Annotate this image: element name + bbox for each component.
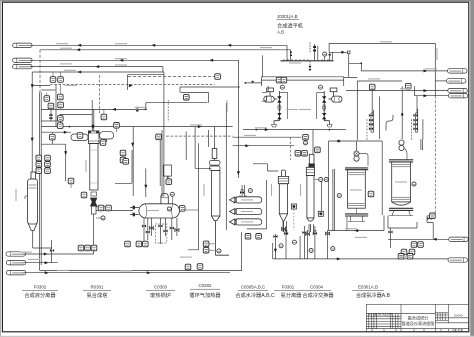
wire: lines into C0304 area y137 y145.7	[233, 137, 302, 146]
wire: dashed control box at boiler	[155, 224, 166, 243]
instrument TI-40	[256, 234, 262, 240]
arrow: bottom flag1 line	[44, 253, 48, 256]
label R0301 converter	[83, 284, 111, 299]
instrument LI-27	[68, 178, 74, 184]
valve boiler blowdown 4	[170, 227, 174, 230]
title block	[366, 304, 469, 331]
svg-text:合成冷交换器: 合成冷交换器	[302, 291, 334, 299]
arrow: header y126.6	[198, 125, 202, 128]
svg-text:氨合成塔分: 氨合成塔分	[408, 315, 428, 321]
instrument row LI-29 LI-30 LI-31	[125, 241, 131, 247]
flag right 6	[448, 258, 468, 262]
boiler dome gauge	[170, 192, 174, 196]
instrument SI-49 SI-50	[276, 77, 282, 83]
wire: dashed capillary x290.3	[289, 137, 291, 160]
wire: line y109.4	[41, 103, 146, 110]
flag right 5	[449, 237, 469, 241]
bubble standpipe	[166, 179, 172, 185]
arrow: header dot	[69, 126, 71, 128]
svg-text:C0302: C0302	[199, 283, 212, 288]
converter inlet pot left	[71, 134, 88, 141]
instrument PI-2	[58, 94, 64, 100]
wire: bubble stems upper-left	[47, 72, 182, 208]
instrument HC-42	[405, 83, 411, 89]
flange marks on converter bypass	[136, 107, 138, 109]
C0304 top instruments circles	[319, 177, 323, 181]
valve E0301A drain	[326, 232, 330, 235]
instrument PI-38	[315, 147, 321, 153]
instrument TI-21	[215, 74, 221, 80]
wire: letdown dashed bypasses	[367, 119, 412, 140]
wire: F0302 feed line y72	[32, 71, 164, 73]
arrow: x32.2 down	[31, 138, 34, 142]
instrument FI-13	[57, 123, 63, 129]
arrow: main under turbine	[265, 128, 269, 131]
flag right 2	[447, 79, 467, 83]
svg-text:氨分离器: 氨分离器	[281, 291, 303, 299]
instrument row FI-24 FI-25 FI-26	[78, 245, 84, 251]
svg-text:氨合成塔: 氨合成塔	[87, 291, 109, 299]
instrument LI-43 LI-44	[411, 242, 417, 248]
instrument row TI-15a TI-15b	[36, 162, 42, 168]
boiler C0303 waste heat boiler drum	[130, 165, 199, 218]
turbine J0301A assembly	[264, 88, 288, 127]
wire: right drain riser x427	[427, 216, 433, 240]
boiler inner label	[147, 210, 159, 211]
wire: F0302 inlet riser x32.2	[31, 72, 33, 172]
instrument LI-22	[98, 205, 104, 211]
arrow: feed1	[77, 44, 81, 47]
wire: bottom valve cluster verticals	[275, 226, 327, 259]
wire: instrument line y144.2	[41, 140, 65, 181]
chiller E0301A ammonia cooler A	[345, 151, 368, 231]
wire: E0301 bottom header y230.6	[329, 216, 384, 231]
arrow: into inlet pot	[64, 131, 68, 134]
heater C0302 circulating gas heater column	[210, 149, 230, 256]
valve boiler blowdown 6	[146, 231, 150, 234]
label C0305A,B,C	[235, 284, 275, 299]
wire: turbine box side x262.6	[262, 55, 264, 77]
valve boiler blowdown 3	[158, 225, 162, 228]
svg-text:J0301(A,B: J0301(A,B	[277, 14, 298, 19]
gauge PI drain 1	[279, 244, 283, 248]
wire: C0302 inlet elbow	[195, 127, 211, 169]
valve product line	[273, 235, 277, 238]
instrument TI-47 TI-48	[398, 253, 404, 259]
label C0302	[189, 283, 221, 299]
arrow: x145.8 down	[144, 185, 147, 189]
wire: header y126.6 left area	[41, 126, 233, 128]
exchanger C0304 cold exchanger column	[306, 154, 314, 232]
wire: feed line 1 y45	[30, 45, 287, 60]
label C0303	[146, 284, 175, 299]
wire: E0301B feed risers	[380, 96, 423, 150]
bottom left small valves	[50, 249, 54, 252]
cooler C0305C	[230, 219, 262, 225]
instrument TI-8	[101, 114, 107, 120]
svg-text:E0301A,B: E0301A,B	[358, 284, 378, 289]
gauge PI drain 2	[292, 240, 296, 244]
gauge PI drain 3	[309, 248, 313, 252]
C0304 level instrument	[318, 211, 323, 216]
valve boiler blowdown 1	[142, 225, 146, 228]
instrument FI-20	[156, 134, 162, 140]
page edge shading bottom	[0, 336, 474, 337]
svg-text:F0302: F0302	[34, 284, 47, 289]
instrument PI-7	[58, 116, 64, 122]
title block texts	[368, 313, 464, 333]
wire: R4 feed	[415, 86, 449, 96]
wire: C0305 inlet drop x238.4	[238, 127, 240, 178]
wire: converter inlet line y132.2	[41, 131, 71, 133]
E0301B inner label	[395, 181, 407, 182]
label F0301	[274, 284, 302, 299]
bubble box left	[123, 159, 129, 165]
instrument LI-10	[50, 134, 56, 140]
svg-text:合成液分离器: 合成液分离器	[24, 291, 56, 299]
flag right 3	[448, 88, 468, 92]
svg-text:R0301: R0301	[91, 284, 104, 289]
converter outlet pot right	[100, 132, 114, 142]
page edge shading left	[0, 0, 2, 337]
arrow: drain drop	[274, 249, 277, 253]
wire: step to x226	[225, 103, 227, 230]
wire: R1 feed	[349, 63, 448, 71]
svg-text:合成透平机: 合成透平机	[277, 21, 304, 29]
C0305 top valves	[240, 190, 244, 194]
wire: inner box edge x133.2	[132, 127, 134, 196]
instrument PI-18	[120, 157, 126, 163]
converter R0301 ammonia synthesis tower	[89, 131, 100, 214]
wire: turbine box top	[261, 77, 343, 86]
chiller E0301B ammonia cooler B	[389, 140, 413, 216]
wire: R2 feed	[435, 80, 446, 82]
wire: flag feed bottom2 y262.7	[23, 240, 57, 263]
instrument TI-1	[44, 96, 50, 102]
arrow: product line	[337, 257, 341, 260]
control valve F0301 drain	[284, 231, 288, 235]
flag left feed 3	[13, 64, 32, 68]
label E0301A,B	[352, 284, 391, 299]
instrument LI-45 LI-46	[401, 249, 407, 255]
wire: dashed vertical x435 lower	[434, 96, 436, 216]
wire: dashed signal y84.4	[50, 83, 215, 85]
instrument PI-11	[77, 133, 83, 139]
C0304 side label	[300, 184, 301, 196]
instrument row TI-14a TI-14b	[36, 155, 42, 161]
flag left bottom 3	[6, 271, 26, 275]
valve boiler blowdown 7	[175, 229, 179, 232]
wire: recycle line y49.8	[40, 50, 291, 61]
instrument TI-12	[100, 140, 106, 146]
page edge shading right	[470, 0, 474, 337]
wire: dashed instrument line y76.5	[128, 76, 215, 78]
E0301A inner label	[350, 189, 362, 190]
wire: left line y85.4 short	[32, 84, 50, 86]
wire: F0301 feed step	[253, 164, 278, 171]
instrument PI-19	[184, 94, 190, 100]
svg-text:合成水冷器A,B,C: 合成水冷器A,B,C	[235, 291, 275, 299]
wire: verticals x198.5 x208.6	[188, 130, 209, 250]
wire: box corner x127.5	[128, 75, 164, 90]
top title: turbine J0301	[277, 14, 304, 35]
E0301A side bubble	[368, 191, 374, 197]
svg-text:合成氨冷器A,B: 合成氨冷器A,B	[356, 291, 391, 299]
boiler shell gauge	[167, 207, 171, 211]
instrument HC-41	[369, 84, 375, 90]
instrument PI-34	[303, 134, 309, 140]
wire: right flag5 line y239.3	[388, 238, 449, 240]
wire: left main vertical x56	[55, 84, 57, 126]
arrow: feed3	[95, 65, 99, 68]
wire: stub x51	[50, 110, 52, 122]
wire: converter feed x93.5 top	[92, 100, 94, 131]
arrow: R3 line	[424, 89, 428, 92]
wire: short line y121	[41, 120, 59, 122]
instrument TI-37	[302, 150, 308, 156]
wire: compressor stack feeds	[372, 90, 417, 113]
instrument TI-9	[114, 123, 120, 129]
instrument TI-51 TI-52	[203, 241, 209, 247]
wire: feed line 3 y66.6	[30, 67, 163, 72]
cooler C0305B	[230, 208, 262, 214]
arrow: converter feed down	[92, 125, 95, 129]
wire: drum inlet from converter	[96, 207, 133, 211]
arrow: y85.6 line	[129, 84, 133, 87]
instrument AI-33	[197, 264, 203, 270]
control valve C0304 drain	[313, 231, 317, 235]
arrow: y109.4 left	[112, 108, 116, 111]
arrow: feed2	[76, 48, 80, 51]
compressor valve stacks right	[369, 114, 373, 117]
arrow: boiler drop	[131, 143, 134, 147]
wire: battery limit dashed vertical x40 top	[39, 50, 41, 93]
F0301 side label	[271, 184, 272, 196]
label F0302	[22, 284, 58, 299]
wire: line y87 mid with drop	[180, 87, 240, 93]
bubble drum side	[179, 206, 185, 212]
wire: plant box left edge double	[40, 92, 42, 270]
svg-text:管道及仪表流程图: 管道及仪表流程图	[402, 320, 435, 326]
wire: converter tail x93.5	[93, 214, 95, 254]
wire: big box bottom edge y270.6	[40, 232, 242, 271]
instrument PI-17	[120, 150, 126, 156]
arrow: bottom flag3 line	[45, 271, 49, 274]
svg-text:C0305A,B,C: C0305A,B,C	[241, 284, 265, 289]
flag left bottom 1	[6, 252, 26, 256]
wire: bottom product line y259	[273, 258, 449, 260]
wire: line y92.6 mid	[181, 93, 209, 103]
svg-text:C0303: C0303	[154, 284, 167, 289]
J0301B valve stack	[322, 96, 326, 102]
wire: compressor box top y81	[357, 81, 402, 140]
wire: boiler feed drop x145.8	[146, 103, 208, 197]
instrument LI-28	[81, 192, 87, 198]
valve boiler blowdown 2	[150, 227, 154, 230]
arrow: bottom flag2 line	[45, 261, 49, 264]
svg-text:废热锅炉: 废热锅炉	[150, 291, 171, 299]
wire: C0302 riser x215.5	[214, 127, 216, 149]
wire: C0304 riser x313	[312, 130, 314, 155]
instrument FI-3	[50, 77, 56, 83]
wire: F0301 C0304 bottom drops	[283, 221, 314, 235]
turbine J0301B assembly	[317, 88, 342, 127]
wire: steam header risers	[315, 44, 358, 78]
F0301 level instrument	[291, 204, 296, 209]
converter letdown gauge	[101, 216, 105, 220]
wire: R3 feed	[346, 90, 448, 92]
E0301A side gauge	[337, 194, 341, 198]
vessel F0302 synthesis liquid separator	[25, 172, 37, 231]
svg-text:A,B: A,B	[277, 30, 284, 35]
instrument TI-36	[295, 150, 301, 156]
svg-text:F0301: F0301	[282, 284, 295, 289]
wire: boiler drops	[144, 218, 177, 244]
arrow: y145.7	[245, 144, 249, 147]
F0302 side label	[15, 189, 16, 201]
flange pair feed line	[49, 114, 52, 116]
arrow: R1 line	[424, 69, 428, 72]
arrow: x226.3 down	[237, 171, 240, 175]
arrow: R4 line	[424, 94, 428, 97]
equipment name labels (bottom row)	[22, 283, 391, 299]
valve C0304 drain 1	[302, 231, 306, 234]
wire: flag feed bottom1 y254	[23, 253, 94, 255]
wire: vertical x163.9	[163, 72, 165, 197]
wire: dashed vertical x99.5	[99, 75, 101, 114]
wire: letdown hook	[386, 115, 393, 131]
flag left bottom 2	[6, 261, 26, 265]
arrow: steam crossover	[341, 51, 345, 54]
arrow: x65.7 down	[64, 151, 67, 155]
instrument FI-4	[58, 77, 64, 83]
wire: valve stack risers right	[371, 109, 418, 132]
converter side label	[85, 160, 86, 172]
wire: bottom left vertical x272.7	[272, 243, 274, 259]
arrow: flag5 line	[433, 238, 437, 241]
instrument TI-5	[48, 103, 54, 109]
wire: short line y114.4	[60, 113, 93, 115]
wire: steam line top right y43.4	[329, 43, 435, 96]
separator F0301 ammonia separator column	[278, 170, 288, 232]
J0301A valve stack	[277, 96, 281, 102]
svg-text:XXXXXX: XXXXXX	[454, 315, 464, 317]
wire: line x186	[185, 132, 187, 161]
E0301B side gauge	[412, 182, 416, 186]
wire: main line under turbines y129.6	[243, 129, 346, 131]
wire: F0302 tail	[33, 231, 52, 248]
label C0304	[302, 284, 334, 299]
flag left feed 1	[13, 43, 32, 47]
instrument AI-32	[185, 264, 191, 270]
arrow: F0302 feed	[77, 71, 81, 74]
page edge shading top	[0, 0, 474, 1]
wire: E0301A inlet loop	[329, 141, 383, 231]
C0302 side label	[203, 184, 204, 196]
gauge PI drain 4	[331, 247, 335, 251]
wire: dashed stub x168.2	[167, 100, 169, 122]
gauge PG-35	[303, 141, 307, 145]
valve boiler blowdown 5	[163, 230, 167, 233]
wire: turbine A inlet elbows	[245, 83, 268, 101]
wire: boiler downcomer pair	[160, 130, 162, 197]
flag right 4	[448, 94, 468, 98]
instrument row TI-16a TI-16b	[36, 168, 42, 174]
svg-text:循环气加热器: 循环气加热器	[189, 291, 221, 299]
instrument LI-23	[106, 205, 112, 211]
wire: bubble enclosure x132	[115, 150, 132, 183]
flag right 1	[448, 69, 468, 73]
instrument PI-6	[58, 102, 64, 108]
wire: C0304 instrument drop	[321, 180, 323, 212]
bottom right drain valves	[388, 231, 392, 234]
flag left feed 2	[13, 58, 32, 62]
wire: bottom pipe from flag3 y272.7	[23, 272, 230, 274]
svg-text:C0304: C0304	[310, 284, 323, 289]
wire: E0301B drain	[388, 216, 417, 249]
arrow: bottom header	[354, 229, 358, 232]
wire: dashed signal y136.1	[166, 135, 233, 137]
valve C0304 drain 2	[305, 233, 309, 236]
cooler C0305A	[230, 195, 262, 203]
steam header	[280, 46, 350, 61]
wire: feed line 2 y60.3	[30, 60, 239, 127]
wire: short line y90	[41, 89, 55, 91]
instrument TI-39	[245, 234, 251, 240]
wire: C0305 header risers	[242, 180, 267, 229]
